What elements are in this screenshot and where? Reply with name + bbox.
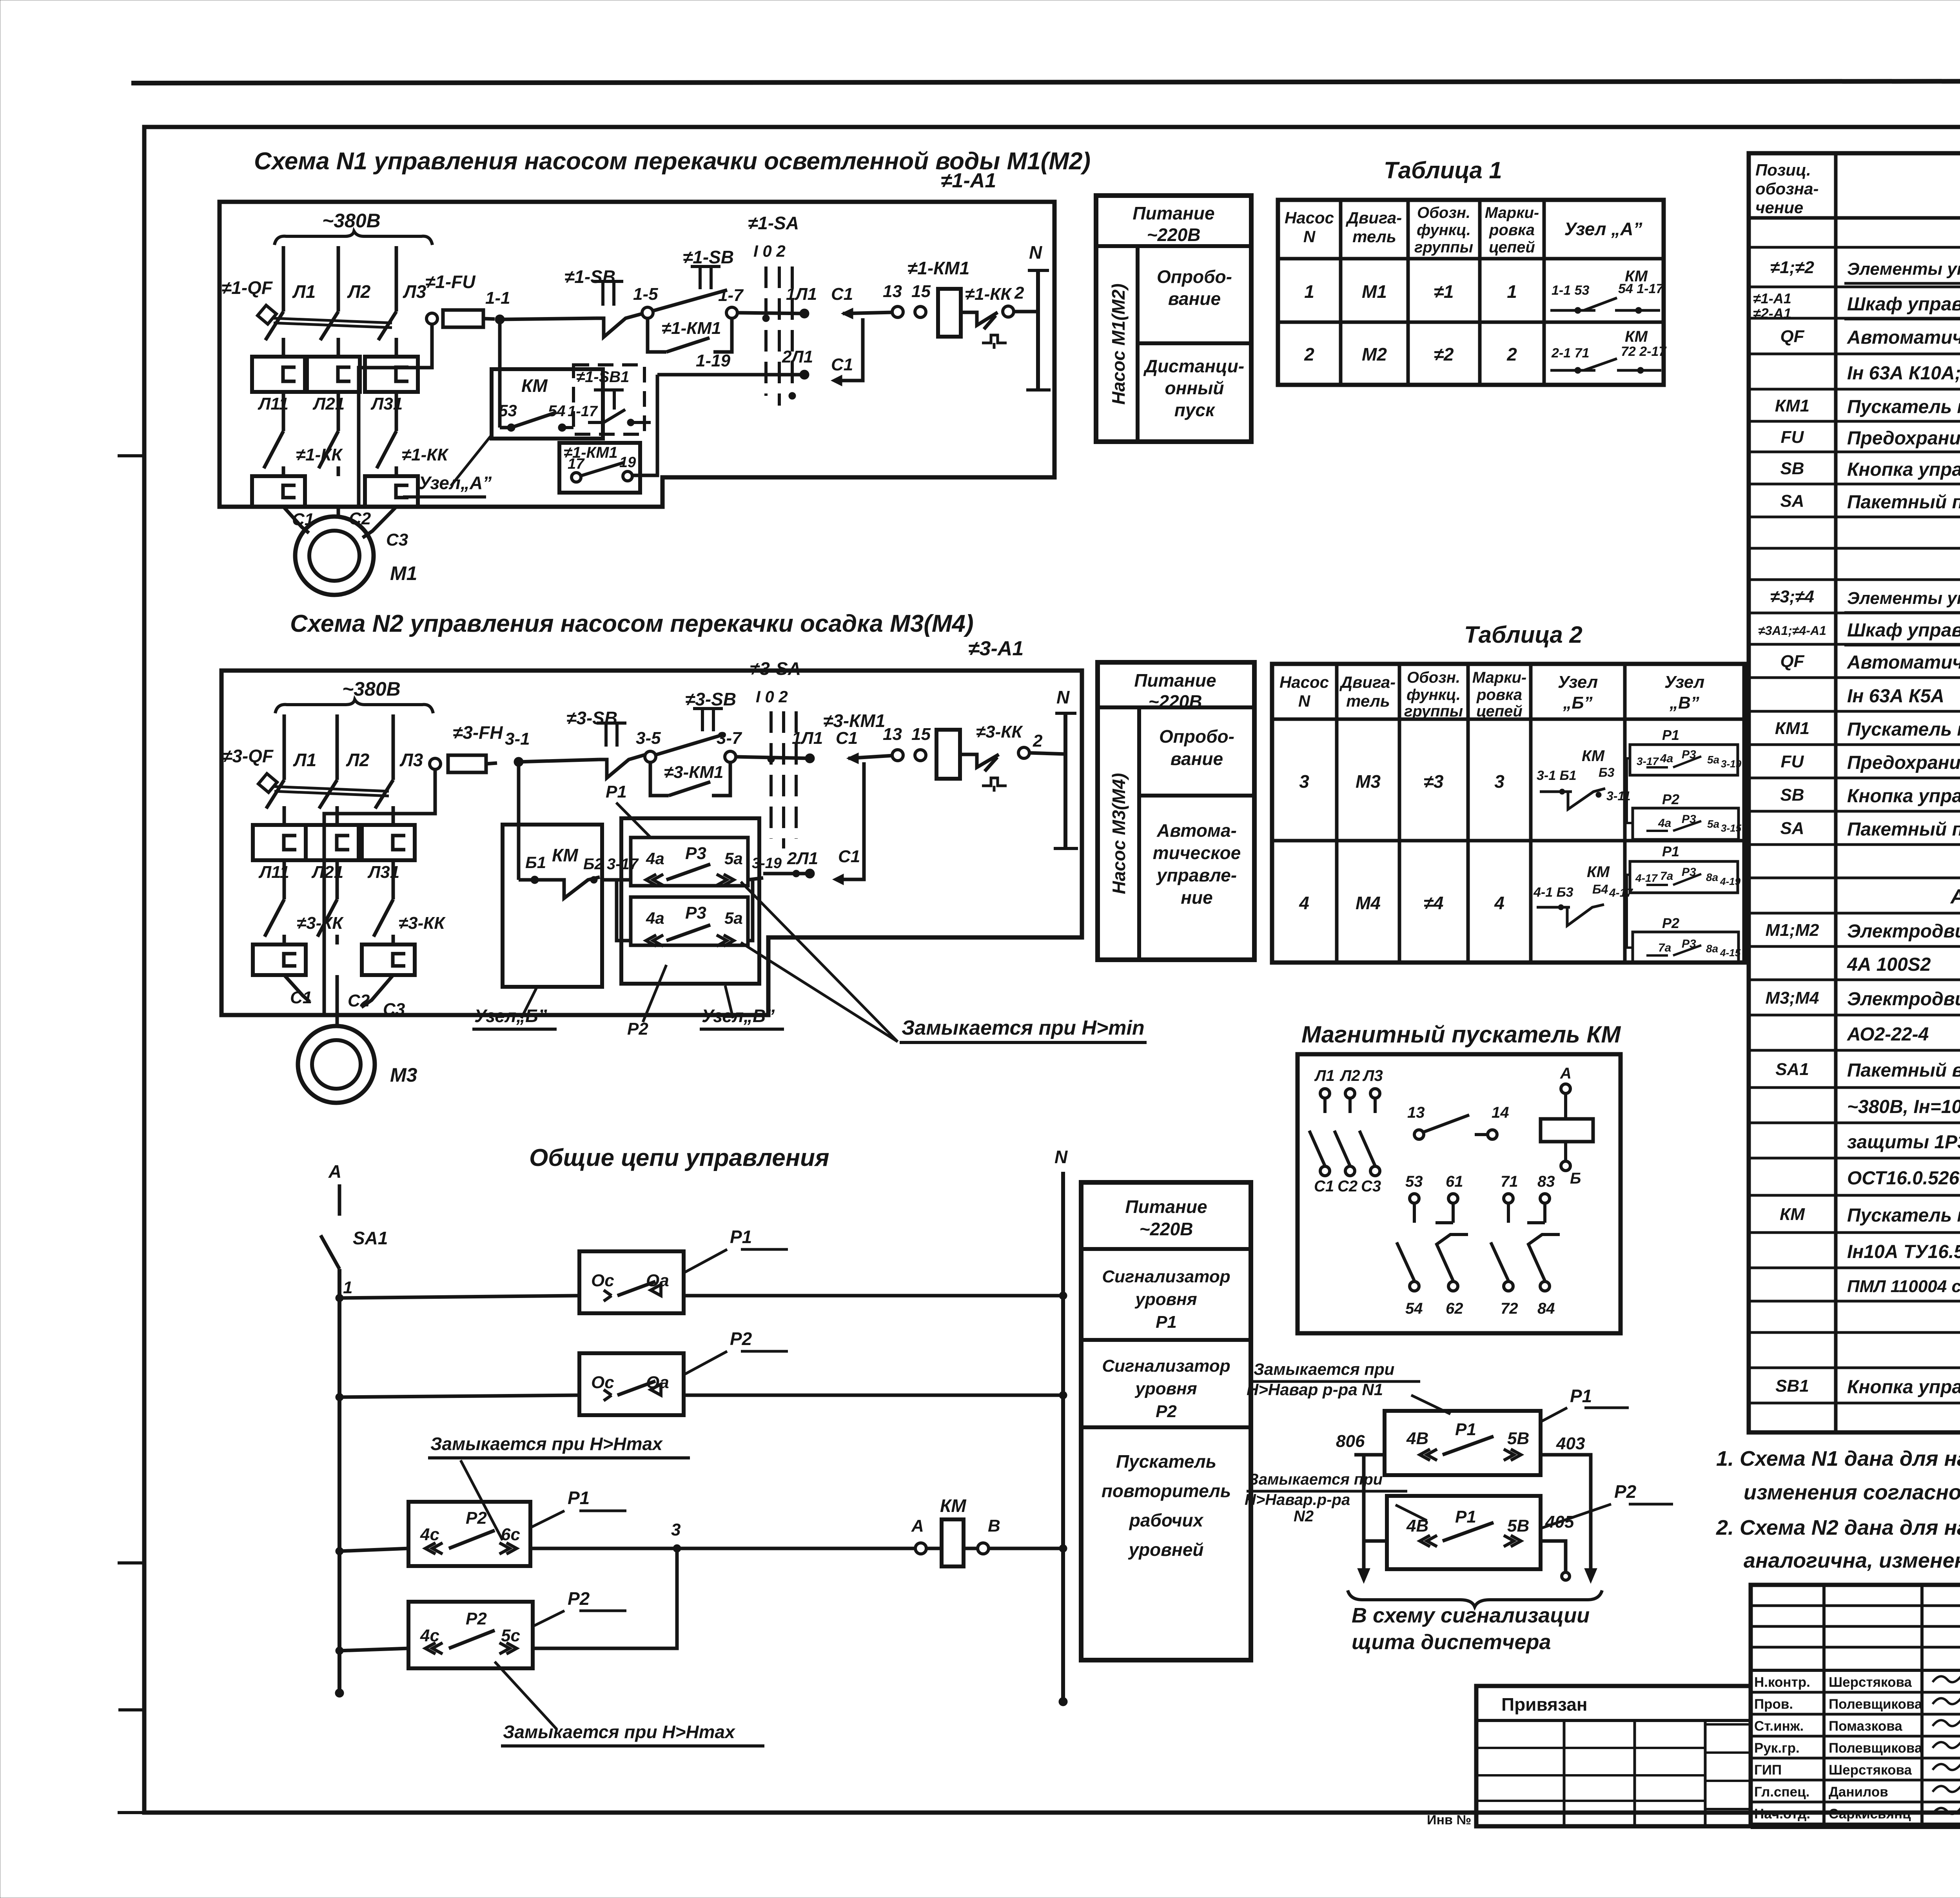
svg-text:Р3: Р3 [685, 844, 706, 863]
svg-text:4с: 4с [420, 1626, 439, 1645]
380V bracket [274, 231, 432, 245]
svg-text:Инв №: Инв № [1427, 1813, 1471, 1827]
svg-text:Схема N2 управления насосом пе: Схема N2 управления насосом перекачки ос… [290, 610, 974, 637]
schema2 node 2L1 [805, 869, 815, 878]
repeater contact box P2-P1 rung3 [408, 1502, 530, 1566]
svg-text:Л2: Л2 [347, 281, 371, 302]
schema2 380V bracket [275, 700, 433, 713]
svg-text:61: 61 [1446, 1173, 1463, 1190]
svg-text:≠3-КМ1: ≠3-КМ1 [823, 711, 885, 731]
svg-text:М1: М1 [390, 562, 417, 584]
svg-text:FU: FU [1781, 428, 1804, 447]
phase wire L2 [337, 246, 340, 312]
cabinet #3-A1 outline [221, 671, 1082, 1015]
title block left grid [1822, 1585, 1826, 1826]
svg-text:Iн 63А К5А: Iн 63А К5А [1847, 686, 1944, 707]
svg-text:Б2: Б2 [583, 856, 603, 873]
svg-text:54: 54 [1405, 1300, 1423, 1317]
svg-text:~220В: ~220В [1140, 1219, 1193, 1239]
svg-text:А: А [328, 1161, 341, 1182]
wire fuse tap down into cabinet [324, 769, 435, 1016]
svg-text:Обозн.: Обозн. [1417, 204, 1470, 221]
svg-text:QF: QF [1780, 327, 1804, 346]
svg-text:1-5: 1-5 [633, 285, 658, 304]
wire to N bus [1014, 310, 1038, 314]
level relay P2 contact box [579, 1353, 684, 1415]
svg-text:Помазкова: Помазкова [1829, 1719, 1902, 1734]
svg-text:72: 72 [1501, 1300, 1518, 1317]
relay P2 contact box in node V [631, 897, 748, 945]
terminal 1-5 [642, 307, 653, 318]
svg-text:КМ1: КМ1 [1775, 719, 1809, 738]
svg-text:5а: 5а [1707, 818, 1719, 830]
svg-text:КМ: КМ [1625, 328, 1648, 345]
power legend box common circuits [1081, 1182, 1251, 1660]
svg-text:2Л1: 2Л1 [787, 849, 818, 868]
wire C1 to contactor coil [843, 312, 892, 314]
svg-text:7а: 7а [1658, 941, 1671, 954]
aux contact #1-KM1 self hold [648, 318, 666, 352]
svg-text:С1: С1 [831, 285, 853, 304]
svg-text:5В: 5В [1507, 1516, 1529, 1535]
svg-text:Замыкается при Н>Нmax: Замыкается при Н>Нmax [430, 1434, 663, 1454]
schema2 contactor heaters row [253, 825, 306, 860]
svg-text:Замыкается при Н>Нmax: Замыкается при Н>Нmax [503, 1722, 736, 1742]
svg-text:83: 83 [1537, 1173, 1555, 1190]
rung 2 wire [336, 1393, 343, 1401]
svg-text:4а: 4а [646, 909, 664, 927]
schema2 terminal 15 [915, 750, 926, 761]
svg-text:Л3: Л3 [1362, 1067, 1383, 1084]
svg-text:КМ1: КМ1 [1775, 396, 1809, 415]
svg-text:Замыкается при: Замыкается при [1254, 1360, 1394, 1378]
svg-text:ОСТ16.0.526.001-77 ПВ2-10/У,3: ОСТ16.0.526.001-77 ПВ2-10/У,3.30 [1847, 1168, 1960, 1189]
svg-text:1-19: 1-19 [696, 351, 731, 370]
svg-text:N: N [1054, 1147, 1068, 1167]
svg-text:Р1: Р1 [730, 1227, 752, 1247]
sheet fold line top [131, 81, 1960, 83]
svg-text:4-1 Б3: 4-1 Б3 [1533, 885, 1573, 900]
svg-text:N: N [1298, 692, 1311, 710]
svg-text:62: 62 [1446, 1300, 1463, 1317]
svg-text:3-7: 3-7 [717, 729, 742, 748]
svg-text:53: 53 [1405, 1173, 1423, 1190]
svg-text:Магнитный пускатель КМ: Магнитный пускатель КМ [1301, 1021, 1621, 1048]
svg-text:Саркисьянц: Саркисьянц [1829, 1806, 1911, 1822]
svg-text:Питание: Питание [1132, 203, 1214, 223]
svg-text:Р2: Р2 [466, 1508, 487, 1528]
remote button #1-SB1 dashed box [573, 365, 644, 434]
schema2 lower wire to 2L1 [763, 872, 810, 876]
svg-text:Кнопка управления КЕ-011: Кнопка управления КЕ-011 [1847, 1377, 1960, 1398]
motor M3 [298, 1026, 375, 1103]
svg-text:15: 15 [911, 725, 931, 744]
svg-text:N: N [1029, 242, 1042, 263]
svg-text:~380В: ~380В [342, 678, 401, 700]
svg-text:тическое: тическое [1153, 843, 1241, 863]
svg-text:~380В, Iн=10А, исполнение 1У,: ~380В, Iн=10А, исполнение 1У, степень [1847, 1097, 1960, 1117]
breaker #1-QF poles [265, 312, 283, 340]
title block outline [1751, 1585, 1960, 1826]
svg-text:С3: С3 [386, 530, 408, 549]
svg-text:5а: 5а [1707, 754, 1719, 766]
parallel branch wires node V [617, 880, 631, 941]
svg-text:С1: С1 [836, 729, 858, 748]
svg-text:Р1: Р1 [1156, 1312, 1177, 1332]
svg-text:≠1-SВ1: ≠1-SВ1 [576, 368, 629, 386]
svg-text:Ос: Ос [591, 1373, 614, 1392]
svg-text:Р1: Р1 [1455, 1420, 1476, 1439]
svg-text:Гл.спец.: Гл.спец. [1754, 1784, 1809, 1800]
svg-text:4: 4 [1494, 893, 1504, 913]
motor M1 [295, 517, 374, 595]
svg-text:Кнопка управления КСГ-12: Кнопка управления КСГ-12 [1847, 786, 1960, 807]
svg-text:КМ: КМ [521, 375, 548, 396]
svg-text:Пускатель магнитный ~220В;: Пускатель магнитный ~220В; [1847, 1205, 1960, 1226]
svg-text:С3: С3 [383, 1000, 405, 1019]
svg-text:Л3: Л3 [403, 281, 426, 302]
svg-text:2: 2 [1033, 731, 1043, 750]
svg-text:Полевщикова: Полевщикова [1829, 1740, 1922, 1756]
svg-text:Обозн.: Обозн. [1407, 669, 1460, 686]
wire 3-7 to 1L1 [736, 757, 810, 758]
svg-text:3-1 Б1: 3-1 Б1 [1537, 768, 1577, 783]
rung 3 wire [336, 1547, 343, 1555]
svg-text:А: А [1560, 1065, 1572, 1082]
svg-text:5с: 5с [501, 1626, 520, 1645]
svg-text:обозна-: обозна- [1755, 179, 1818, 198]
svg-text:Л3: Л3 [399, 750, 423, 770]
svg-text:3-19: 3-19 [1721, 758, 1742, 770]
wire from fuse tap down into cabinet [359, 324, 432, 506]
level relay P1 contact box [579, 1251, 684, 1313]
rung 2 to N [684, 1394, 1063, 1397]
phase wires to KK contacts [282, 392, 285, 431]
svg-text:8а: 8а [1706, 871, 1718, 883]
svg-text:уровня: уровня [1134, 1379, 1197, 1398]
svg-text:Р2: Р2 [466, 1609, 487, 1628]
svg-text:Предохранитель ПРС-6-П Iпл.Вс: Предохранитель ПРС-6-П Iпл.Вст. 6А [1847, 752, 1960, 773]
svg-text:Элементы управления электродви: Элементы управления электродвигателями М… [1847, 259, 1960, 279]
svg-text:≠1-А1: ≠1-А1 [941, 169, 996, 192]
rung 1 wire [336, 1294, 343, 1302]
svg-text:≠3-КК: ≠3-КК [297, 914, 344, 933]
svg-text:Автоматический выключатель АК6: Автоматический выключатель АК63-3МГ [1847, 327, 1960, 348]
schema2 terminal 2 [1018, 747, 1029, 758]
svg-text:Шерстякова: Шерстякова [1829, 1762, 1912, 1778]
svg-text:Шерстякова: Шерстякова [1829, 1675, 1912, 1690]
svg-text:~220В: ~220В [1147, 225, 1201, 245]
fuse #3-FH [430, 758, 441, 769]
svg-text:Автоматический выключатель АК6: Автоматический выключатель АК63-3МГ [1847, 652, 1960, 673]
svg-text:Кнопка управления КСГ1-12: Кнопка управления КСГ1-12 [1847, 459, 1960, 480]
svg-text:4А 100S2: 4А 100S2 [1847, 954, 1931, 975]
node V outer box [621, 818, 759, 984]
svg-text:Р2: Р2 [1662, 915, 1679, 931]
wire 1-7 to 1L1 [737, 313, 804, 314]
svg-text:N: N [1303, 227, 1316, 246]
svg-text:~220В: ~220В [1149, 691, 1202, 712]
svg-text:Насос: Насос [1285, 208, 1334, 227]
svg-text:≠1-КК: ≠1-КК [402, 445, 449, 464]
binding box [1476, 1686, 1751, 1826]
start button #1-SB contact [691, 266, 720, 289]
svg-text:КМ: КМ [1780, 1205, 1805, 1224]
svg-text:Марки-: Марки- [1485, 204, 1539, 221]
svg-text:5В: 5В [1507, 1429, 1529, 1448]
start button #3-SB contact [693, 709, 723, 731]
svg-text:Л2: Л2 [346, 750, 370, 770]
breaker trip bar [274, 318, 392, 323]
svg-text:3-1: 3-1 [505, 729, 530, 749]
svg-text:Р1: Р1 [568, 1488, 590, 1508]
svg-text:4а: 4а [1660, 752, 1673, 765]
svg-text:4В: 4В [1406, 1429, 1428, 1448]
svg-text:3-17: 3-17 [1637, 755, 1659, 767]
svg-text:Узел „А”: Узел „А” [1564, 219, 1642, 239]
schema2 wires to KK [283, 860, 286, 899]
svg-text:Iн 63А К10А;: Iн 63А К10А; [1847, 363, 1960, 384]
svg-text:Двига-: Двига- [1339, 673, 1396, 691]
table 1 grid [1278, 200, 1664, 385]
svg-text:3-15: 3-15 [1721, 822, 1742, 834]
svg-text:Электродвигатель ~380В; 1,5кВт: Электродвигатель ~380В; 1,5кВт [1847, 989, 1960, 1010]
svg-text:FU: FU [1781, 752, 1804, 771]
svg-text:2-1 71: 2-1 71 [1551, 346, 1589, 361]
svg-text:≠3-QF: ≠3-QF [222, 746, 274, 766]
thermal relay heaters #3-KK [253, 944, 306, 975]
svg-text:С2: С2 [1338, 1178, 1357, 1195]
svg-text:5а: 5а [724, 909, 743, 927]
svg-text:SB: SB [1780, 459, 1804, 478]
svg-text:≠1-А1: ≠1-А1 [1753, 290, 1791, 306]
svg-text:Данилов: Данилов [1829, 1784, 1888, 1800]
svg-text:С1: С1 [831, 355, 853, 374]
svg-text:Предохранитель ПРС-6-П Iпл.Вс: Предохранитель ПРС-6-П Iпл.Вст.=6А [1847, 428, 1960, 449]
svg-text:ГИП: ГИП [1754, 1762, 1782, 1778]
svg-text:функц.: функц. [1406, 686, 1461, 703]
svg-text:ровка: ровка [1489, 221, 1535, 239]
svg-text:М3;М4: М3;М4 [1766, 988, 1819, 1008]
svg-text:Р2: Р2 [730, 1329, 752, 1349]
svg-text:1: 1 [343, 1278, 352, 1297]
svg-text:Р2: Р2 [1156, 1402, 1177, 1421]
terminal A [915, 1543, 926, 1554]
svg-text:403: 403 [1556, 1434, 1585, 1453]
svg-text:М3: М3 [390, 1064, 417, 1086]
svg-text:Н.контр.: Н.контр. [1754, 1675, 1810, 1690]
svg-text:КМ: КМ [552, 845, 579, 865]
svg-text:Р2: Р2 [1614, 1481, 1637, 1502]
svg-text:≠1-КМ1: ≠1-КМ1 [662, 319, 721, 338]
selector #3-SA poles [769, 711, 773, 839]
title block signature rows [1751, 1669, 1960, 1672]
svg-text:Б: Б [1570, 1170, 1581, 1187]
svg-text:Нач.отд.: Нач.отд. [1754, 1806, 1810, 1822]
schema2 breaker trip bar [274, 787, 389, 791]
svg-text:уровня: уровня [1134, 1290, 1197, 1309]
svg-text:Рук.гр.: Рук.гр. [1754, 1740, 1800, 1756]
bottom border extension under title block [1751, 1825, 1960, 1829]
svg-text:С1: С1 [290, 988, 312, 1007]
svg-text:2: 2 [1304, 344, 1314, 364]
svg-text:Привязан: Привязан [1501, 1694, 1588, 1715]
svg-text:Насос М1(М2): Насос М1(М2) [1108, 283, 1129, 404]
svg-text:вание: вание [1171, 749, 1223, 769]
svg-text:Таблица 1: Таблица 1 [1384, 157, 1502, 183]
svg-text:Узел: Узел [1664, 673, 1704, 692]
svg-text:806: 806 [1336, 1432, 1365, 1451]
svg-text:≠1-SB: ≠1-SB [683, 247, 734, 267]
contactor main contact heaters row [252, 357, 305, 392]
svg-text:≠4: ≠4 [1424, 893, 1444, 913]
svg-text:≠1;≠2: ≠1;≠2 [1770, 258, 1814, 277]
svg-text:4: 4 [1299, 893, 1309, 913]
svg-text:1: 1 [1304, 281, 1314, 302]
svg-text:Л2: Л2 [1339, 1067, 1360, 1084]
node 2L1 [800, 370, 809, 379]
terminal 3-5 [645, 751, 656, 762]
svg-text:4-19: 4-19 [1720, 876, 1741, 887]
svg-text:1Л1: 1Л1 [786, 285, 817, 304]
svg-text:„Б”: „Б” [1563, 693, 1592, 712]
svg-text:54: 54 [548, 402, 566, 420]
svg-text:А: А [911, 1516, 924, 1535]
svg-text:онный: онный [1165, 378, 1224, 398]
svg-text:≠3;≠4: ≠3;≠4 [1770, 587, 1814, 606]
svg-text:4а: 4а [646, 849, 664, 868]
motor lead C1 [283, 507, 309, 533]
svg-text:Р1: Р1 [606, 782, 627, 801]
svg-text:Б4: Б4 [1592, 882, 1608, 896]
svg-text:М4: М4 [1356, 893, 1381, 913]
phase wire L1 [282, 246, 285, 312]
wire 3-1 to stop button [519, 760, 599, 762]
node B box [503, 825, 602, 987]
cabinet #1-A1 outline [220, 202, 1054, 507]
svg-text:Автома-: Автома- [1156, 820, 1237, 841]
svg-text:SB: SB [1780, 785, 1804, 805]
terminal 2 [1003, 306, 1014, 317]
relay P2 contact box dispatcher [1387, 1496, 1541, 1569]
svg-text:Насос М3(М4): Насос М3(М4) [1109, 773, 1129, 894]
svg-text:Опробо-: Опробо- [1157, 266, 1232, 287]
svg-text:Электродвигатель ~380В; 4кВт: Электродвигатель ~380В; 4кВт [1847, 921, 1960, 942]
svg-text:Пускатель: Пускатель [1116, 1451, 1216, 1472]
svg-text:В схему сигнализации: В схему сигнализации [1352, 1604, 1590, 1627]
svg-text:Узел„В”: Узел„В” [702, 1006, 775, 1026]
motor lead C3 [363, 507, 396, 538]
svg-text:„В”: „В” [1669, 693, 1699, 712]
svg-text:≠1: ≠1 [1434, 281, 1454, 302]
svg-text:Р3: Р3 [685, 903, 706, 923]
repeater contact box P2 rung4 [408, 1602, 533, 1668]
terminal B [978, 1543, 989, 1554]
motor lead C2 [337, 507, 340, 518]
rung 4 wire [336, 1647, 343, 1655]
svg-text:С1: С1 [838, 847, 860, 866]
schema2 motor leads [284, 975, 310, 1002]
svg-text:Дистанци-: Дистанци- [1143, 356, 1244, 376]
wire 1-19 [657, 373, 804, 377]
svg-text:чение: чение [1755, 198, 1803, 217]
svg-text:Р1: Р1 [1662, 843, 1679, 859]
svg-text:2: 2 [1506, 344, 1517, 364]
relay P1 contact box in node V [631, 838, 748, 886]
aux contact #1-KM1 in node A [559, 443, 640, 493]
svg-text:2: 2 [1014, 283, 1024, 303]
svg-text:≠1-КК: ≠1-КК [965, 285, 1012, 304]
dispatcher brace [1348, 1590, 1602, 1607]
selector switch #1-SA poles [764, 266, 768, 396]
button #1-SB1 contact [594, 390, 624, 410]
svg-text:М2: М2 [1362, 344, 1387, 364]
svg-text:группы: группы [1404, 703, 1463, 720]
aux contact #3-KM1 self hold [650, 762, 669, 796]
breaker #3-QF poles [266, 780, 284, 809]
node A KM contact box [492, 369, 603, 439]
svg-text:~380В: ~380В [322, 210, 381, 232]
svg-text:С2: С2 [348, 991, 370, 1010]
svg-text:3-5: 3-5 [636, 729, 661, 748]
svg-text:Iн10А ТУ16.526.437-78: Iн10А ТУ16.526.437-78 [1847, 1242, 1960, 1262]
parts table grid [1749, 153, 1960, 1432]
svg-text:Ст.инж.: Ст.инж. [1754, 1719, 1804, 1734]
parts table header [1749, 216, 1960, 220]
svg-text:Пакетный переключатель ППМ3-10: Пакетный переключатель ППМ3-10/Н2 [1847, 492, 1960, 513]
svg-text:≠2: ≠2 [1434, 344, 1454, 364]
svg-text:SА1: SА1 [353, 1228, 388, 1248]
svg-text:4а: 4а [1658, 817, 1671, 830]
svg-text:Пускатель магнитный ПМЕ112 Т8А: Пускатель магнитный ПМЕ112 Т8А [1847, 397, 1960, 417]
svg-text:≠3-КК: ≠3-КК [399, 914, 446, 933]
svg-text:1-1: 1-1 [485, 288, 510, 308]
svg-text:тель: тель [1346, 692, 1390, 710]
svg-text:Н>Навар.р-ра: Н>Навар.р-ра [1245, 1491, 1350, 1508]
svg-text:Позиц.: Позиц. [1755, 161, 1811, 179]
svg-text:Замыкается при Н>min: Замыкается при Н>min [902, 1017, 1145, 1039]
svg-text:≠3-SA: ≠3-SA [750, 658, 801, 679]
parts table rows [1749, 246, 1960, 249]
switch SA1 [338, 1184, 341, 1216]
svg-text:ние: ние [1181, 887, 1212, 908]
svg-text:Шкаф управления ШУ5104-03В2К: Шкаф управления ШУ5104-03В2К [1847, 294, 1960, 315]
node 1L1 [800, 309, 809, 318]
wire 19 up to 1-19 [632, 375, 657, 475]
svg-text:уровней: уровней [1128, 1539, 1203, 1560]
svg-text:М3: М3 [1356, 771, 1381, 792]
svg-text:КМ: КМ [940, 1496, 967, 1516]
svg-text:2. Схема N2 дана для насоса N3: 2. Схема N2 дана для насоса N3, для насо… [1716, 1516, 1960, 1539]
dispatcher right drop wire [1541, 1455, 1591, 1579]
stop button #1-SB contact [593, 281, 623, 306]
svg-text:ПМЛ 110004 с магнитной пристав: ПМЛ 110004 с магнитной приставкой ПКЛ 22… [1847, 1277, 1960, 1296]
svg-text:13: 13 [883, 725, 902, 744]
svg-text:вание: вание [1168, 288, 1221, 309]
svg-text:Б1: Б1 [525, 853, 546, 872]
svg-text:4с: 4с [420, 1525, 439, 1544]
svg-text:N: N [1056, 687, 1070, 707]
svg-text:13: 13 [883, 282, 902, 301]
svg-text:аналогична, изменения согласно: аналогична, изменения согласно табл.2. [1744, 1549, 1960, 1572]
schema2 terminal 13 [892, 750, 903, 761]
svg-text:≠3-FH: ≠3-FH [453, 722, 503, 743]
svg-text:≠1-QF: ≠1-QF [221, 277, 273, 298]
svg-text:4-15: 4-15 [1720, 947, 1741, 959]
svg-text:N2: N2 [1294, 1508, 1314, 1525]
svg-text:АО2-22-4: АО2-22-4 [1847, 1024, 1929, 1045]
schema2 node 1L1 [805, 754, 815, 763]
